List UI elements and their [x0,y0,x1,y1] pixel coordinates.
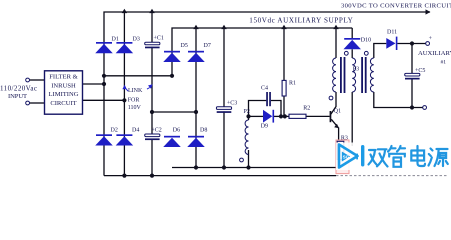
svg-text:INRUSH: INRUSH [51,82,76,89]
svg-text:SG: SG [343,155,350,160]
svg-text:110/220Vac: 110/220Vac [0,85,37,93]
wire C3 column [223,28,225,168]
resistor R1 [282,80,286,96]
svg-text:FOR: FOR [128,97,140,103]
node 150V bus junction at P3 [333,25,338,29]
node C5 bottom junction [410,105,414,109]
wire P3 primary top to bus [335,28,337,58]
watermark text shuang [369,149,388,166]
wire secondary top to D11 [374,44,387,59]
wire aux ground rail [172,167,342,169]
svg-text:D8: D8 [200,127,207,133]
wire main bottom rail [104,175,336,177]
wire D10 column [351,28,353,38]
node arrow 300VDC output [426,9,431,14]
watermark logo bar [361,145,364,167]
diode D2 [95,134,113,145]
svg-text:110V: 110V [128,105,142,111]
resistor R3 [337,141,344,159]
wire bottom rail under watermark [336,175,448,177]
wire C5 bottom lead [411,78,413,107]
wire Q1 collector to P3 winding [331,92,336,114]
svg-text:D5: D5 [181,43,188,49]
node top bus junction at C1 column [149,9,154,13]
watermark logo background [336,143,451,171]
svg-text:D11: D11 [387,30,397,36]
diode D11 [386,37,397,50]
svg-text:+C1: +C1 [154,36,164,42]
svg-text:D3: D3 [133,36,140,42]
node D9 R1 R2 junction [279,114,283,118]
transformer P3 secondary winding [370,58,373,92]
node 150V bus junction at D7 [193,25,198,29]
svg-text:+C3: +C3 [227,101,237,107]
filter box text [48,74,78,107]
node top bus junction at D3 column [122,9,127,13]
wire D10 to feedback winding [351,49,353,58]
node aux rail at P2 [246,165,250,169]
terminal input bottom [26,101,30,105]
svg-text:D9: D9 [261,123,268,129]
svg-text:+C5: +C5 [415,68,425,74]
svg-text:300VDC TO CONVERTER CIRCUIT: 300VDC TO CONVERTER CIRCUIT [341,2,451,9]
transistor Q1 [330,111,339,128]
wire R1 column [283,28,285,116]
highlight box around R3 [336,140,349,174]
svg-text:LINK: LINK [128,88,143,94]
watermark logo play triangle [339,145,358,168]
svg-text:C4: C4 [261,85,268,91]
svg-text:#1: #1 [441,60,447,66]
node bottom rail at C2 [150,174,154,178]
transformer P3 primary winding [333,58,336,92]
watermark logo inner triangle [342,152,350,162]
svg-text:INPUT: INPUT [8,93,27,100]
wire D3/D4 column [123,12,125,176]
capacitor C2 [145,134,160,140]
node AC1 at D1 column [102,74,106,78]
wire D11 cathode to + terminal [397,43,425,45]
wire P2 bottom lead [248,150,250,168]
diode D10 [343,38,361,49]
wire 150Vdc bus [172,28,352,76]
inductor P2 winding [245,120,248,155]
wire D7/D8 column [195,28,197,168]
diode D3 [116,42,133,53]
diode D5 [163,51,181,62]
transformer P3 core left [340,57,345,93]
diode D8 [187,136,205,147]
svg-text:+C2: +C2 [151,127,161,133]
node P2 top junction [246,114,250,118]
capacitor C3 [216,107,231,113]
node filter top output [102,82,106,86]
watermark text guan [388,146,405,167]
wire C1/C2 column [151,12,153,176]
node filter bottom output [122,98,126,102]
svg-text:R1: R1 [289,81,296,87]
diode D6 [163,136,181,147]
diode D9 [263,110,274,123]
wire C5 top lead [411,44,413,74]
wire input terminal bottom [30,102,45,104]
terminal P3 secondary phase dot [364,51,368,55]
wire secondary bottom to - terminal [374,92,423,108]
svg-text:CIRCUIT: CIRCUIT [50,100,76,107]
wire R2 to Q1 base [306,115,330,117]
svg-text:LIMITING: LIMITING [48,91,78,98]
svg-text:D4: D4 [132,128,139,134]
node bottom rail at D4 [122,174,126,178]
wire D9 cathode to R2 [274,115,289,117]
terminal input top [26,78,30,82]
resistor R2 [289,114,306,118]
svg-text:150Vdc AUXILIARY SUPPLY: 150Vdc AUXILIARY SUPPLY [249,16,352,24]
capacitor C5 [405,73,420,79]
node link arrow right [148,84,153,88]
svg-text:R3: R3 [341,136,348,142]
wire filter output top [83,83,105,85]
wire C4 right lead [271,101,281,117]
diode D7 [187,51,205,62]
svg-text:D1: D1 [112,36,119,42]
svg-text:AUXILIARY: AUXILIARY [418,50,451,57]
node R1 bottom junction [283,114,287,118]
node AC2 at D8 column [194,110,198,114]
transistor Q1 emitter arrow [334,124,339,129]
svg-text:D2: D2 [111,128,118,134]
wire Q1 emitter to R3 [338,128,340,142]
diode D1 [95,42,113,53]
svg-text:Q1: Q1 [334,108,341,114]
node aux rail at D8 [194,165,198,169]
wire input terminal top [30,79,45,81]
transformer P3 feedback winding [352,58,355,92]
node C5 top junction [410,41,414,45]
wire R3 bottom lead [339,160,341,168]
terminal P2 phase dot [240,158,244,162]
terminal P3 feedback phase dot [344,51,348,55]
capacitor C4 [266,92,271,106]
node AC1 at D5 column [170,74,174,78]
wire AC feed 2 [152,111,196,113]
wire feedback winding bottom [351,92,353,146]
node 150V bus junction at C3 [221,25,226,29]
node AC2 at C2 column [150,110,154,114]
filter box [45,71,83,114]
node link arrow left [122,85,126,89]
diode D4 [116,134,133,145]
terminal auxiliary plus [426,42,430,46]
transformer P3 core right [361,57,366,93]
svg-text:P2: P2 [244,109,250,115]
svg-text:D10: D10 [361,37,371,43]
svg-text:D7: D7 [204,43,211,49]
svg-text:R2: R2 [303,106,310,112]
wire 300VDC top bus [104,12,430,176]
wire C4 left lead [249,101,267,121]
node 150V bus junction at R1 [281,25,286,29]
watermark logo colon dots [356,154,358,160]
wire AC feed 1 [104,75,172,77]
wire filter output bottom [83,99,125,101]
node aux rail at C3 [222,165,226,169]
svg-text:FILTER &: FILTER & [49,74,78,81]
terminal auxiliary minus [423,106,427,110]
terminal P3 primary phase dot [329,96,333,100]
capacitor C1 [145,42,160,48]
wire D9 anode lead [249,115,264,117]
watermark text yuan [429,149,448,167]
svg-text:D6: D6 [173,127,180,133]
watermark text dian [411,146,425,166]
svg-text:P3: P3 [353,66,359,72]
